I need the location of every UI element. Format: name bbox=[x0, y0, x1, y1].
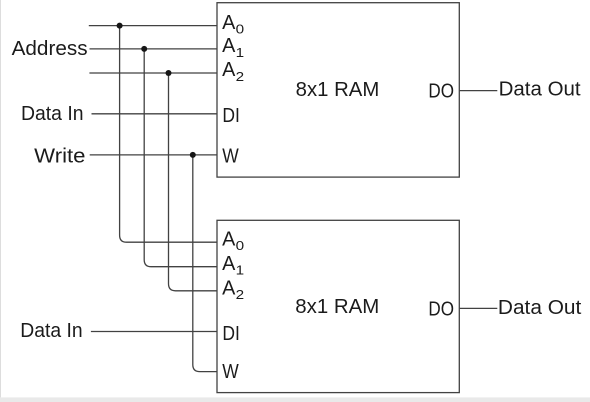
junction: Address A0 branch node bbox=[117, 23, 123, 29]
wire: Address A2 net to U1.A2 bbox=[89, 72, 217, 74]
svg-text:DI: DI bbox=[222, 105, 240, 127]
junction: Write branch node bbox=[190, 152, 196, 158]
wire: A1 branch from junction down to U2.A1 bbox=[144, 49, 217, 267]
wire: Write net to U1.W bbox=[90, 154, 217, 156]
wire: Address A0 net to U1.A0 bbox=[89, 25, 217, 27]
wire: Address A1 net to U1.A1 bbox=[90, 48, 218, 50]
svg-text:8x1 RAM: 8x1 RAM bbox=[296, 79, 380, 101]
wire: A0 branch from junction down to U2.A0 bbox=[120, 26, 217, 243]
svg-text:A: A bbox=[222, 253, 236, 275]
svg-text:2: 2 bbox=[236, 287, 245, 302]
RAM block U2 (bottom 8x1 RAM) bbox=[217, 220, 459, 392]
svg-text:A: A bbox=[222, 12, 236, 34]
wire: U1.DO to Data Out bbox=[459, 90, 497, 92]
svg-text:Data In: Data In bbox=[20, 320, 82, 342]
svg-text:A: A bbox=[222, 35, 236, 57]
svg-text:1: 1 bbox=[236, 45, 245, 60]
wire: Write branch from junction down to U2.W bbox=[193, 155, 217, 372]
RAM block U1 (top 8x1 RAM) bbox=[217, 3, 459, 177]
wire: A2 branch from junction down to U2.A2 bbox=[169, 73, 218, 291]
svg-text:DO: DO bbox=[428, 299, 454, 321]
svg-text:1: 1 bbox=[236, 263, 245, 278]
wire: U2.DO to Data Out bbox=[459, 307, 497, 309]
svg-text:A: A bbox=[222, 277, 236, 299]
page left border bbox=[0, 0, 1, 397]
svg-text:2: 2 bbox=[236, 69, 245, 84]
svg-text:W: W bbox=[222, 146, 239, 168]
svg-text:W: W bbox=[222, 361, 239, 383]
wire: Data In net to U2.DI bbox=[91, 331, 217, 333]
page bottom border strip bbox=[0, 397, 590, 402]
svg-text:0: 0 bbox=[236, 22, 245, 37]
svg-text:DO: DO bbox=[428, 81, 454, 103]
svg-text:8x1 RAM: 8x1 RAM bbox=[295, 296, 379, 318]
svg-text:Data Out: Data Out bbox=[499, 79, 581, 101]
svg-text:Write: Write bbox=[34, 146, 85, 168]
svg-text:Data Out: Data Out bbox=[498, 297, 582, 319]
wire: Data In net to U1.DI bbox=[92, 113, 218, 115]
svg-text:Data In: Data In bbox=[21, 103, 84, 125]
svg-text:A: A bbox=[222, 228, 236, 250]
svg-text:0: 0 bbox=[236, 238, 245, 253]
svg-text:DI: DI bbox=[222, 323, 240, 345]
junction: Address A2 branch node bbox=[166, 70, 172, 76]
svg-text:A: A bbox=[222, 59, 236, 81]
junction: Address A1 branch node bbox=[141, 46, 147, 52]
svg-text:Address: Address bbox=[12, 38, 88, 60]
